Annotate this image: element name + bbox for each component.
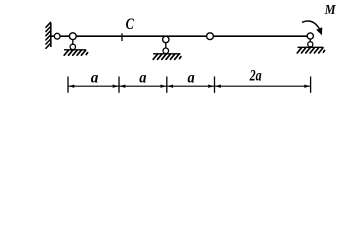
right support ground line — [298, 46, 323, 48]
middle support ground line — [153, 53, 181, 55]
svg-text:a: a — [188, 70, 195, 87]
left support link bar — [72, 36, 74, 47]
right support roller pin — [308, 42, 313, 47]
left support roller pin — [70, 44, 75, 49]
left support ground line — [64, 49, 86, 51]
middle support pin at beam — [163, 36, 169, 42]
beam (with link to wall) — [51, 35, 310, 37]
dimension tick 1 — [67, 77, 69, 93]
point C tick — [121, 33, 123, 41]
middle support ground hatching — [153, 54, 181, 59]
dimension arrows segment 1 — [69, 85, 118, 88]
dimension tick 2 — [118, 77, 120, 93]
middle support link bar — [165, 43, 167, 50]
svg-text:a: a — [91, 70, 99, 87]
dimension arrows segment 3 — [168, 85, 214, 88]
middle support roller pin — [163, 48, 169, 54]
right support hinge at beam end — [307, 33, 313, 39]
internal hinge — [207, 33, 214, 40]
svg-text:M: M — [324, 3, 336, 18]
dimension arrows segment 4 — [215, 85, 309, 88]
dimension line — [68, 85, 311, 87]
pin at wall — [54, 33, 60, 39]
dimension tick 4 — [214, 77, 216, 93]
dimension tick 3 — [166, 77, 168, 93]
left support hinge A — [69, 33, 76, 40]
right support ground hatching — [297, 48, 324, 53]
left support ground hatching — [64, 50, 87, 55]
dimension tick 5 — [310, 77, 312, 93]
wall face — [50, 23, 52, 47]
dimension arrows segment 2 — [120, 85, 166, 88]
moment M arrowhead — [317, 28, 322, 34]
moment M arc arrow — [302, 21, 320, 29]
svg-text:2a: 2a — [249, 68, 262, 85]
wall hatching — [46, 22, 51, 48]
right support link bar — [309, 36, 311, 45]
svg-text:C: C — [126, 16, 134, 33]
svg-text:a: a — [139, 70, 146, 87]
